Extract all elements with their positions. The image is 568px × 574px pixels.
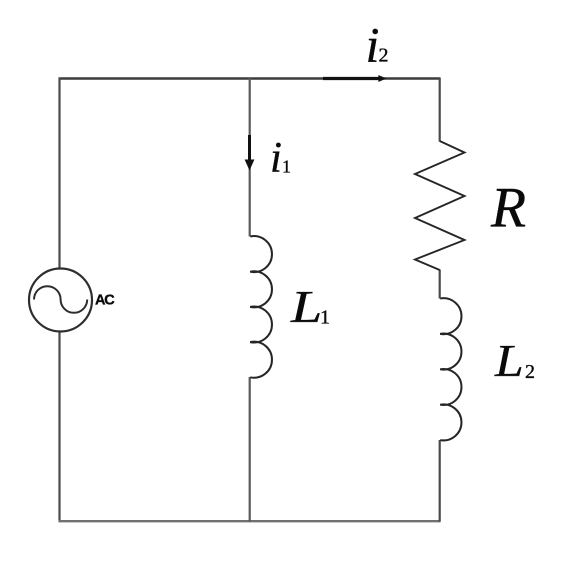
wire bottom xyxy=(59,520,441,522)
wire left xyxy=(58,78,60,523)
wire middle branch xyxy=(249,78,251,522)
resistor R zigzag xyxy=(415,141,465,270)
svg-text:L: L xyxy=(494,334,524,386)
current arrow i2 xyxy=(323,75,386,82)
svg-text:1: 1 xyxy=(282,157,291,177)
current label i2 xyxy=(366,17,389,73)
resistor label R xyxy=(490,176,526,239)
AC label xyxy=(95,293,115,309)
wire top xyxy=(59,77,441,79)
svg-text:AC: AC xyxy=(95,293,115,309)
AC source V1 circle xyxy=(29,269,92,332)
inductor L2 coil xyxy=(440,298,461,440)
inductor L1 label xyxy=(290,282,330,333)
current arrow i1 xyxy=(245,135,255,171)
AC source sine wave xyxy=(34,286,87,313)
wire right branch xyxy=(439,78,441,522)
inductor L1 coil xyxy=(250,236,272,378)
svg-text:i: i xyxy=(270,134,282,181)
svg-text:1: 1 xyxy=(320,307,330,329)
svg-text:2: 2 xyxy=(379,45,389,67)
svg-text:R: R xyxy=(490,176,526,239)
inductor L2 label xyxy=(494,334,535,386)
svg-text:L: L xyxy=(290,282,322,333)
svg-text:i: i xyxy=(366,17,380,73)
current label i1 xyxy=(270,134,291,181)
svg-text:2: 2 xyxy=(525,361,535,383)
